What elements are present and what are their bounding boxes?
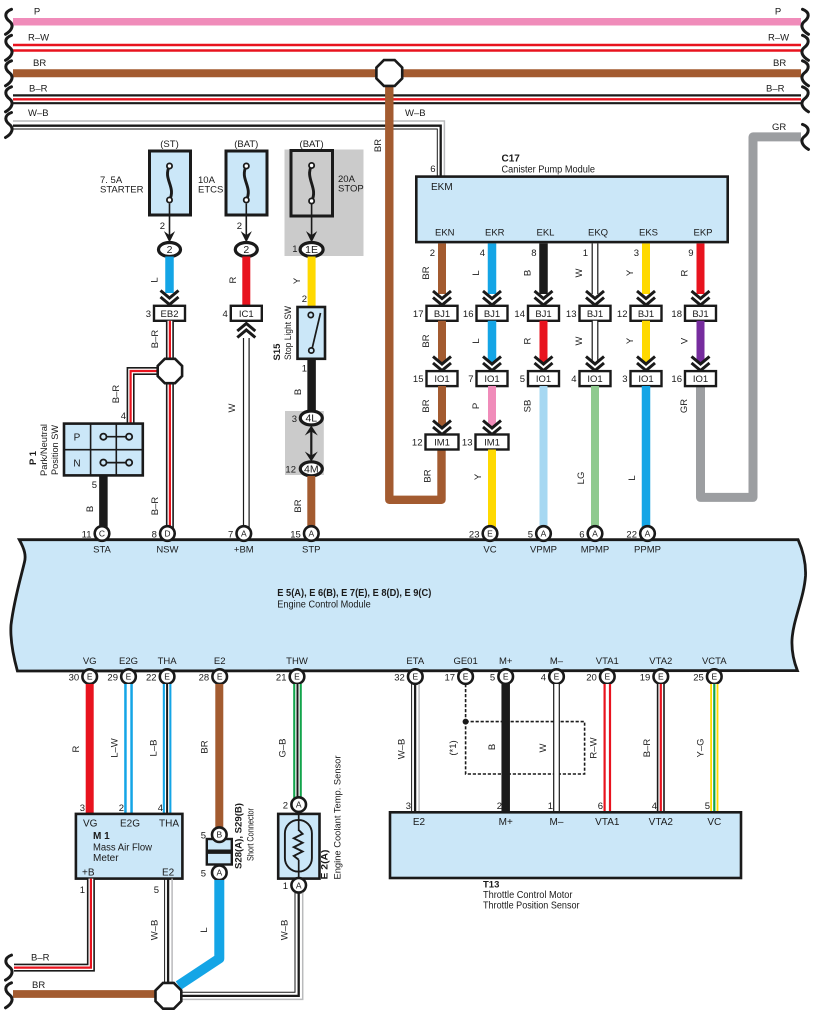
svg-text:11: 11 [82, 530, 92, 541]
svg-text:1: 1 [283, 881, 288, 892]
svg-text:VTA1: VTA1 [595, 817, 620, 828]
svg-text:L: L [471, 270, 482, 275]
svg-text:IO1: IO1 [434, 374, 449, 385]
wire L from fuse connector to EB2 [165, 257, 174, 294]
svg-text:5: 5 [490, 673, 495, 684]
svg-text:P: P [775, 7, 781, 18]
connector IO1 pin 3 [622, 371, 661, 386]
connector IM1 pin 12 [412, 435, 459, 450]
svg-text:R–W: R–W [589, 737, 600, 758]
wire L from C17 EKR [488, 244, 497, 295]
svg-text:BJ1: BJ1 [587, 309, 603, 320]
wire BR from C17 EKN [438, 244, 446, 295]
wire L from short connector to ground octagon [179, 880, 220, 986]
svg-text:R: R [523, 337, 534, 344]
svg-text:5: 5 [528, 530, 533, 541]
svg-text:3: 3 [634, 248, 639, 259]
connector BJ1 pin 14 [514, 306, 559, 321]
svg-text:18: 18 [671, 309, 682, 320]
svg-text:EKL: EKL [537, 228, 555, 239]
svg-text:3: 3 [292, 414, 297, 425]
svg-text:12: 12 [617, 309, 628, 320]
svg-text:W–B: W–B [397, 739, 408, 760]
svg-text:(BAT): (BAT) [234, 139, 258, 150]
svg-text:4: 4 [158, 803, 163, 814]
svg-text:L–W: L–W [110, 738, 121, 758]
svg-text:IO1: IO1 [536, 374, 551, 385]
ECM bottom pin 19(E) VTA2 [654, 669, 669, 684]
svg-text:2: 2 [160, 221, 165, 232]
svg-text:B: B [216, 830, 222, 840]
svg-text:IC1: IC1 [239, 309, 254, 320]
svg-text:Canister Pump Module: Canister Pump Module [502, 165, 596, 176]
chevron into BJ1 [692, 291, 710, 305]
svg-text:Park/Neutral: Park/Neutral [39, 424, 50, 476]
svg-text:8: 8 [531, 248, 536, 259]
svg-text:15: 15 [290, 530, 301, 541]
svg-text:9: 9 [688, 248, 693, 259]
svg-text:E: E [487, 529, 493, 539]
svg-text:EKQ: EKQ [588, 228, 608, 239]
svg-text:1: 1 [548, 801, 553, 812]
junction octagon B-R [158, 359, 182, 383]
svg-text:B–R: B–R [111, 385, 122, 404]
svg-text:R–W: R–W [768, 33, 789, 44]
sensor E2(A) Engine Coolant Temp. Sensor [278, 814, 319, 879]
svg-text:B: B [487, 744, 498, 750]
ECM bottom pin 25(E) VCTA [707, 669, 722, 684]
chevron into IO1 [692, 357, 710, 371]
svg-text:5: 5 [92, 480, 97, 491]
svg-text:R: R [228, 276, 239, 283]
dashed shield wire from ECM GE01 [465, 684, 467, 722]
right page-edge curls [802, 9, 809, 34]
svg-text:R: R [71, 745, 82, 752]
svg-text:D: D [164, 529, 170, 539]
ECM bottom pin 32(E) ETA [408, 669, 423, 684]
svg-text:E: E [711, 672, 717, 682]
svg-text:Y: Y [292, 277, 303, 284]
connector BJ1 pin 17 [413, 306, 458, 321]
svg-text:VC: VC [483, 545, 496, 556]
svg-text:1: 1 [302, 364, 307, 375]
svg-text:17: 17 [413, 309, 424, 320]
chevron into IO1 [535, 357, 553, 371]
connector EB2 pin 3 [146, 306, 185, 321]
fuse STARTER output lead [169, 204, 171, 236]
wire L from IO1 3 to ECM PPMP [642, 386, 651, 528]
svg-text:13: 13 [462, 438, 473, 449]
svg-text:30: 30 [69, 673, 80, 684]
svg-text:STARTER: STARTER [100, 184, 144, 195]
wire B-R from EB2 to junction [166, 321, 174, 360]
svg-text:5: 5 [201, 869, 206, 880]
svg-text:M+: M+ [499, 817, 513, 828]
svg-text:S28(A), S29(B): S28(A), S29(B) [234, 803, 245, 869]
svg-text:E 2(A): E 2(A) [320, 850, 331, 880]
svg-text:B–R: B–R [31, 953, 50, 964]
svg-text:22: 22 [146, 673, 157, 684]
connector IO1 pin 7 [468, 371, 507, 386]
svg-text:E: E [217, 672, 223, 682]
wire B-R from ECM VTA2 to T13 [657, 684, 665, 812]
svg-text:B–R: B–R [766, 84, 785, 95]
wire B from S15 to 4L [307, 359, 316, 412]
svg-text:2: 2 [283, 801, 288, 812]
ECM top pin 8(D) NSW [160, 526, 175, 541]
svg-text:A: A [645, 529, 651, 539]
bus wire P (pink) [13, 18, 801, 26]
svg-text:IO1: IO1 [693, 374, 708, 385]
connector oval 1E [300, 243, 323, 257]
svg-text:W–B: W–B [150, 920, 161, 941]
svg-text:5: 5 [520, 374, 525, 385]
arrows between 4L and 4M [305, 426, 318, 462]
svg-text:BR: BR [421, 266, 432, 279]
connector IO1 pin 5 [520, 371, 559, 386]
svg-text:3: 3 [80, 803, 85, 814]
svg-text:25: 25 [693, 673, 704, 684]
wire BR from 4M to ECM STP [307, 476, 315, 528]
svg-text:BR: BR [423, 469, 434, 482]
ground junction octagon [156, 983, 182, 1009]
svg-text:B–R: B–R [642, 739, 653, 758]
svg-text:1: 1 [583, 248, 588, 259]
svg-text:E: E [658, 672, 664, 682]
wire Y from BJ1 to IO1 [642, 321, 650, 362]
ECM top pin 22(A) PPMP [640, 526, 655, 541]
wire Y-G from ECM VCTA to T13 [710, 684, 718, 812]
wire BR from IO1 15 to IM1 12 [438, 386, 446, 426]
svg-text:3: 3 [406, 801, 411, 812]
svg-text:E 5(A), E 6(B), E 7(E), E 8(D): E 5(A), E 6(B), E 7(E), E 8(D), E 9(C) [277, 588, 431, 599]
svg-text:BJ1: BJ1 [535, 309, 551, 320]
svg-text:BR: BR [33, 58, 46, 69]
connector oval 4M [300, 462, 322, 476]
svg-text:MPMP: MPMP [581, 545, 610, 556]
fuse STOP output lead [311, 203, 313, 236]
junction octagon on BR bus [376, 60, 402, 86]
svg-text:L: L [150, 277, 161, 282]
svg-text:GE01: GE01 [453, 656, 477, 667]
ECM top pin 7(A) +BM [237, 526, 252, 541]
svg-text:Throttle Control Motor: Throttle Control Motor [483, 890, 573, 901]
bus wire BR bottom to ground octagon [13, 990, 157, 998]
arrow into connector 1E [306, 231, 317, 242]
wire B-R branch from junction to P1 pin 4 [131, 371, 162, 423]
ECM bottom pin 20(E) VTA1 [600, 669, 615, 684]
svg-text:STA: STA [93, 545, 111, 556]
shield junction dot [463, 719, 469, 725]
svg-text:L: L [471, 338, 482, 343]
chevron into IO1 [483, 357, 501, 371]
chevron into BJ1 [535, 291, 553, 305]
svg-text:6: 6 [598, 801, 603, 812]
wire R from ECM VG to M1 [86, 684, 94, 813]
left page-edge curls [6, 9, 13, 34]
svg-text:P: P [34, 7, 40, 18]
ECM top pin 23(E) VC [483, 526, 498, 541]
bus wire R-W (red/white) [13, 44, 801, 52]
svg-text:B: B [85, 506, 96, 512]
bus wire W-B (white/black) with bend down to C17 pin 6 [13, 121, 444, 177]
chevron into IO1 [586, 357, 604, 371]
svg-text:IM1: IM1 [434, 438, 450, 449]
svg-text:P 1: P 1 [28, 450, 39, 465]
svg-text:S15: S15 [272, 343, 283, 361]
wire W-B from M1 E2 to ground octagon [165, 879, 173, 985]
svg-text:M–: M– [550, 817, 564, 828]
E2(A) pin 2 [291, 797, 306, 812]
fuse 10A ETCS box [226, 151, 267, 215]
svg-text:4L: 4L [305, 413, 317, 425]
svg-text:R–W: R–W [28, 33, 49, 44]
svg-text:L: L [199, 927, 210, 932]
svg-text:IM1: IM1 [484, 438, 500, 449]
svg-text:16: 16 [463, 309, 474, 320]
svg-text:N: N [73, 459, 80, 470]
svg-text:VG: VG [83, 656, 97, 667]
connector IO1 pin 15 [413, 371, 458, 386]
svg-text:Mass Air Flow: Mass Air Flow [93, 843, 153, 854]
svg-text:+B: +B [82, 868, 95, 879]
gray highlight box around 4L/4M connectors [285, 411, 324, 475]
E2(A) pin 1 [291, 878, 306, 893]
svg-text:Engine Control Module: Engine Control Module [277, 600, 371, 611]
svg-text:E: E [164, 672, 170, 682]
wire V from BJ1 to IO1 [697, 321, 705, 362]
svg-text:STP: STP [302, 545, 320, 556]
wire R from fuse connector to IC1 [242, 257, 250, 307]
wire W from C17 EKQ [592, 244, 599, 295]
svg-text:L: L [627, 475, 638, 480]
svg-text:E: E [554, 672, 560, 682]
svg-text:20: 20 [586, 673, 597, 684]
wire W-B from ECM ETA to T13 [412, 684, 420, 812]
svg-text:E: E [412, 672, 418, 682]
svg-text:B–R: B–R [29, 84, 48, 95]
svg-text:7: 7 [228, 530, 233, 541]
svg-text:4: 4 [480, 248, 485, 259]
svg-text:E2: E2 [413, 817, 426, 828]
svg-text:12: 12 [285, 465, 296, 476]
switch P1 Park/Neutral Position SW [64, 424, 143, 476]
svg-text:W–B: W–B [405, 108, 426, 119]
connector oval 4L [300, 411, 322, 425]
svg-text:THW: THW [286, 656, 308, 667]
svg-text:28: 28 [199, 673, 210, 684]
wire R-W from ECM VTA1 to T13 [603, 684, 611, 812]
svg-text:E: E [126, 672, 132, 682]
ECM bottom pin 29(E) E2G [121, 669, 136, 684]
svg-text:1: 1 [292, 244, 297, 255]
svg-text:EKM: EKM [431, 182, 453, 193]
svg-text:E2G: E2G [120, 819, 140, 830]
svg-text:B: B [523, 270, 534, 276]
connector IO1 pin 4 [571, 371, 610, 386]
svg-text:E: E [294, 672, 300, 682]
svg-text:22: 22 [626, 530, 637, 541]
svg-text:2: 2 [167, 244, 173, 256]
svg-text:SB: SB [523, 400, 534, 413]
svg-text:VCTA: VCTA [702, 656, 727, 667]
svg-text:PPMP: PPMP [634, 545, 661, 556]
svg-text:15: 15 [413, 374, 424, 385]
svg-text:Y–G: Y–G [696, 738, 707, 757]
gray highlight box around STOP fuse circuit [285, 150, 364, 257]
svg-text:A: A [308, 529, 314, 539]
wire W from BJ1 to IO1 [592, 321, 599, 362]
wire W-B from sensor pin 1 to ground octagon [182, 893, 303, 1000]
svg-text:3: 3 [146, 309, 151, 320]
svg-text:GR: GR [679, 399, 690, 413]
svg-text:BR: BR [293, 499, 304, 512]
svg-text:VTA2: VTA2 [649, 817, 674, 828]
module C17 Canister Pump Module [416, 154, 727, 243]
svg-text:Position SW: Position SW [50, 425, 61, 475]
connector BJ1 pin 16 [463, 306, 508, 321]
svg-text:BJ1: BJ1 [434, 309, 450, 320]
svg-text:5: 5 [705, 801, 710, 812]
module Engine Control Module E5-E9 [11, 540, 806, 671]
svg-text:THA: THA [158, 656, 178, 667]
connector BJ1 pin 12 [617, 306, 662, 321]
svg-text:E: E [503, 672, 509, 682]
chevron into IO1 [637, 357, 655, 371]
svg-text:2: 2 [243, 244, 249, 256]
chevron into IO1 [433, 357, 451, 371]
svg-text:ETA: ETA [406, 656, 424, 667]
wire W from ECM M- to T13 [553, 684, 560, 812]
svg-text:W–B: W–B [280, 920, 291, 941]
svg-text:M 1: M 1 [93, 831, 110, 842]
ECM top pin 11(C) STA [95, 526, 110, 541]
svg-text:W–B: W–B [28, 108, 49, 119]
svg-text:21: 21 [276, 673, 287, 684]
svg-text:E2: E2 [214, 656, 226, 667]
svg-text:B–R: B–R [150, 330, 161, 349]
bus wire B-R (black/red) [13, 94, 801, 104]
svg-text:1: 1 [80, 885, 85, 896]
module T13 Throttle Control Motor / Throttle Position Sensor [390, 812, 741, 878]
wire SB from IO1 5 to ECM VPMP [540, 386, 548, 528]
svg-text:STOP: STOP [338, 183, 364, 194]
svg-text:E: E [604, 672, 610, 682]
P1 contact row N [100, 460, 132, 466]
svg-text:4: 4 [223, 309, 228, 320]
svg-text:ETCS: ETCS [198, 184, 223, 195]
svg-text:(ST): (ST) [160, 139, 178, 150]
svg-text:LG: LG [576, 472, 587, 485]
svg-text:BJ1: BJ1 [692, 309, 708, 320]
svg-text:NSW: NSW [156, 545, 178, 556]
svg-text:VTA1: VTA1 [596, 656, 619, 667]
fuse 7.5A STARTER box [150, 151, 191, 215]
wire B-R from M1 +B down to B-R bus [14, 879, 91, 968]
wire G-B from ECM THW to coolant sensor [293, 684, 302, 798]
svg-text:P: P [471, 403, 482, 409]
svg-text:E: E [87, 672, 93, 682]
wire B-R from junction to ECM NSW [166, 382, 174, 528]
connector BJ1 pin 18 [671, 306, 716, 321]
svg-text:+BM: +BM [234, 545, 254, 556]
svg-text:BR: BR [32, 980, 45, 991]
svg-text:C: C [99, 529, 105, 539]
svg-text:2: 2 [119, 803, 124, 814]
svg-text:Y: Y [473, 473, 484, 480]
fuse 10A ETCS element symbol [244, 166, 248, 200]
connector S28(A),S29(B) short connector body [207, 839, 232, 865]
svg-text:4M: 4M [304, 464, 319, 476]
svg-text:5: 5 [154, 885, 159, 896]
svg-text:4: 4 [652, 801, 657, 812]
wire B from C17 EKL [539, 244, 548, 295]
connector BJ1 pin 13 [566, 306, 611, 321]
svg-text:1E: 1E [305, 244, 318, 256]
svg-text:V: V [680, 337, 691, 344]
svg-text:Meter: Meter [93, 853, 119, 864]
ECM top pin 6(A) MPMP [588, 526, 603, 541]
wire Y from IM1 13 to ECM VC [488, 450, 496, 529]
svg-text:BR: BR [421, 399, 432, 412]
wire Y from C17 EKS [642, 244, 650, 295]
svg-text:C17: C17 [502, 154, 521, 165]
svg-text:VPMP: VPMP [530, 545, 557, 556]
svg-text:THA: THA [159, 819, 179, 830]
svg-text:4: 4 [121, 411, 126, 422]
svg-text:23: 23 [469, 530, 480, 541]
wire W from IC1 to ECM +BM [243, 338, 250, 528]
svg-text:T13: T13 [483, 880, 499, 891]
svg-text:M+: M+ [499, 656, 513, 667]
svg-text:5: 5 [201, 831, 206, 842]
wire BR from ECM E2 to short connector [215, 684, 223, 826]
svg-text:BJ1: BJ1 [484, 309, 500, 320]
svg-text:W: W [538, 743, 549, 752]
svg-text:EKN: EKN [435, 228, 455, 239]
svg-text:A: A [216, 868, 222, 878]
arrow into connector 2 [164, 231, 175, 242]
svg-text:VG: VG [83, 819, 98, 830]
svg-text:A: A [241, 529, 247, 539]
svg-text:IO1: IO1 [484, 374, 499, 385]
ECM bottom pin 5(E) M+ [498, 669, 513, 684]
ECM bottom pin 30(E) VG [82, 669, 97, 684]
bus wire GR (gray) hook: from right edge down to IO1 16 [701, 137, 802, 498]
wire LG from IO1 4 to ECM MPMP [591, 386, 599, 528]
svg-text:EB2: EB2 [161, 309, 179, 320]
svg-text:E2G: E2G [119, 656, 138, 667]
svg-text:G–B: G–B [278, 738, 289, 757]
ECM bottom pin 28(E) E2 [212, 669, 227, 684]
svg-text:4: 4 [571, 374, 576, 385]
svg-text:32: 32 [394, 673, 405, 684]
svg-text:W: W [574, 336, 585, 345]
svg-text:7: 7 [468, 374, 473, 385]
svg-text:2: 2 [430, 248, 435, 259]
svg-text:A: A [592, 529, 598, 539]
svg-text:17: 17 [445, 673, 456, 684]
chevron into BJ1 [637, 291, 655, 305]
svg-text:3: 3 [622, 374, 627, 385]
svg-text:BR: BR [200, 740, 211, 753]
svg-text:(BAT): (BAT) [300, 139, 324, 150]
svg-text:19: 19 [640, 673, 651, 684]
svg-text:6: 6 [579, 530, 584, 541]
svg-text:IO1: IO1 [638, 374, 653, 385]
svg-text:A: A [541, 529, 547, 539]
wire L-B from ECM THA to M1 [163, 684, 172, 813]
